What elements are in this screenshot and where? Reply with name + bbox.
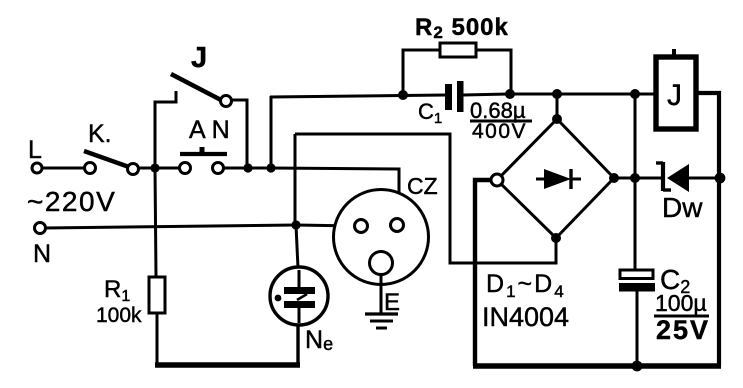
socket CZ [334,173,438,285]
bridge inner diode [536,169,581,189]
wire C1 to node E [463,94,512,95]
resistor R2 [403,43,511,95]
relay contact J [155,42,247,168]
svg-text:J: J [667,79,682,112]
node bridge right [609,173,619,183]
svg-text:E: E [384,289,400,316]
label 0.68u/400V [470,98,532,143]
svg-text:AN: AN [189,116,236,144]
node E junction (R2 right) [505,89,515,99]
neon lamp Ne [270,225,333,354]
node H junction (N line tap) [291,220,300,229]
svg-text:N: N [33,240,51,268]
resistor R1 [149,168,165,364]
pushbutton AN [180,116,236,174]
node bridge left (open) [491,174,503,186]
node G junction (C2 branch) [630,89,640,99]
wire bridge right to C2 branch [614,177,640,180]
svg-text:100k: 100k [96,304,142,327]
terminal N [33,223,51,269]
wire N line [45,225,296,228]
node D junction (R2 left) [398,90,408,100]
node A junction [150,163,159,172]
node K junction (Dw right) [715,173,726,184]
wire C2 branch vertical [634,94,637,270]
svg-text:C1: C1 [418,99,442,127]
svg-text:Ne: Ne [305,326,333,354]
wire L to K [42,167,85,170]
bridge rectifier D1-D4 [497,119,614,238]
svg-text:D1~D4: D1~D4 [486,270,566,301]
wire AN to node B [223,167,274,170]
label R2 500k [415,14,509,42]
svg-text:100µ: 100µ [655,290,707,316]
top rail to bridge [510,93,657,96]
wire bridge top stub [556,94,559,119]
svg-text:~220V: ~220V [27,186,116,217]
label C2 [660,264,690,297]
wire L line to CZ right pin [271,168,399,219]
capacitor C2 [619,270,655,366]
label ~220V [27,186,116,217]
node B junction [243,163,252,172]
label D1~D4 [486,270,566,301]
terminal L [28,136,42,173]
svg-text:Dw: Dw [662,192,703,223]
switch K [84,120,139,175]
top rail wire [270,95,446,97]
svg-text:IN4004: IN4004 [482,302,569,332]
label 1N4004 [482,302,569,332]
wire bottom left [155,324,300,367]
node I junction (Dw tap) [630,173,640,183]
wire bridge left to bottom rail [475,180,491,366]
wire bottom rail [473,363,721,369]
label R1 100k [96,276,142,327]
node bridge bottom [551,233,561,243]
node J junction (C2 bottom) [632,361,643,372]
zener diode Dw [635,162,716,223]
node bridge top [552,114,562,124]
svg-text:R2 500k: R2 500k [415,14,509,42]
svg-text:400V: 400V [472,120,527,143]
wire right rail [697,93,719,366]
label 100u/25V [654,290,710,345]
wire N branch vertical [294,134,297,226]
wire rail2 from N branch [295,134,556,263]
label C1 [418,99,442,127]
svg-text:J: J [191,42,207,74]
node C junction [266,163,275,172]
relay coil J [656,49,696,129]
wire N to CZ left pin [296,225,355,226]
wire K to node A [138,167,182,170]
svg-text:R1: R1 [104,276,130,305]
node F junction (bridge top tap) [552,89,562,99]
capacitor C1 [445,81,464,112]
svg-text:CZ: CZ [407,173,438,199]
wire node C up to top rail [270,96,273,168]
ground E [365,274,400,328]
svg-text:L: L [28,136,42,164]
svg-text:25V: 25V [656,315,710,345]
svg-text:K.: K. [88,120,112,148]
